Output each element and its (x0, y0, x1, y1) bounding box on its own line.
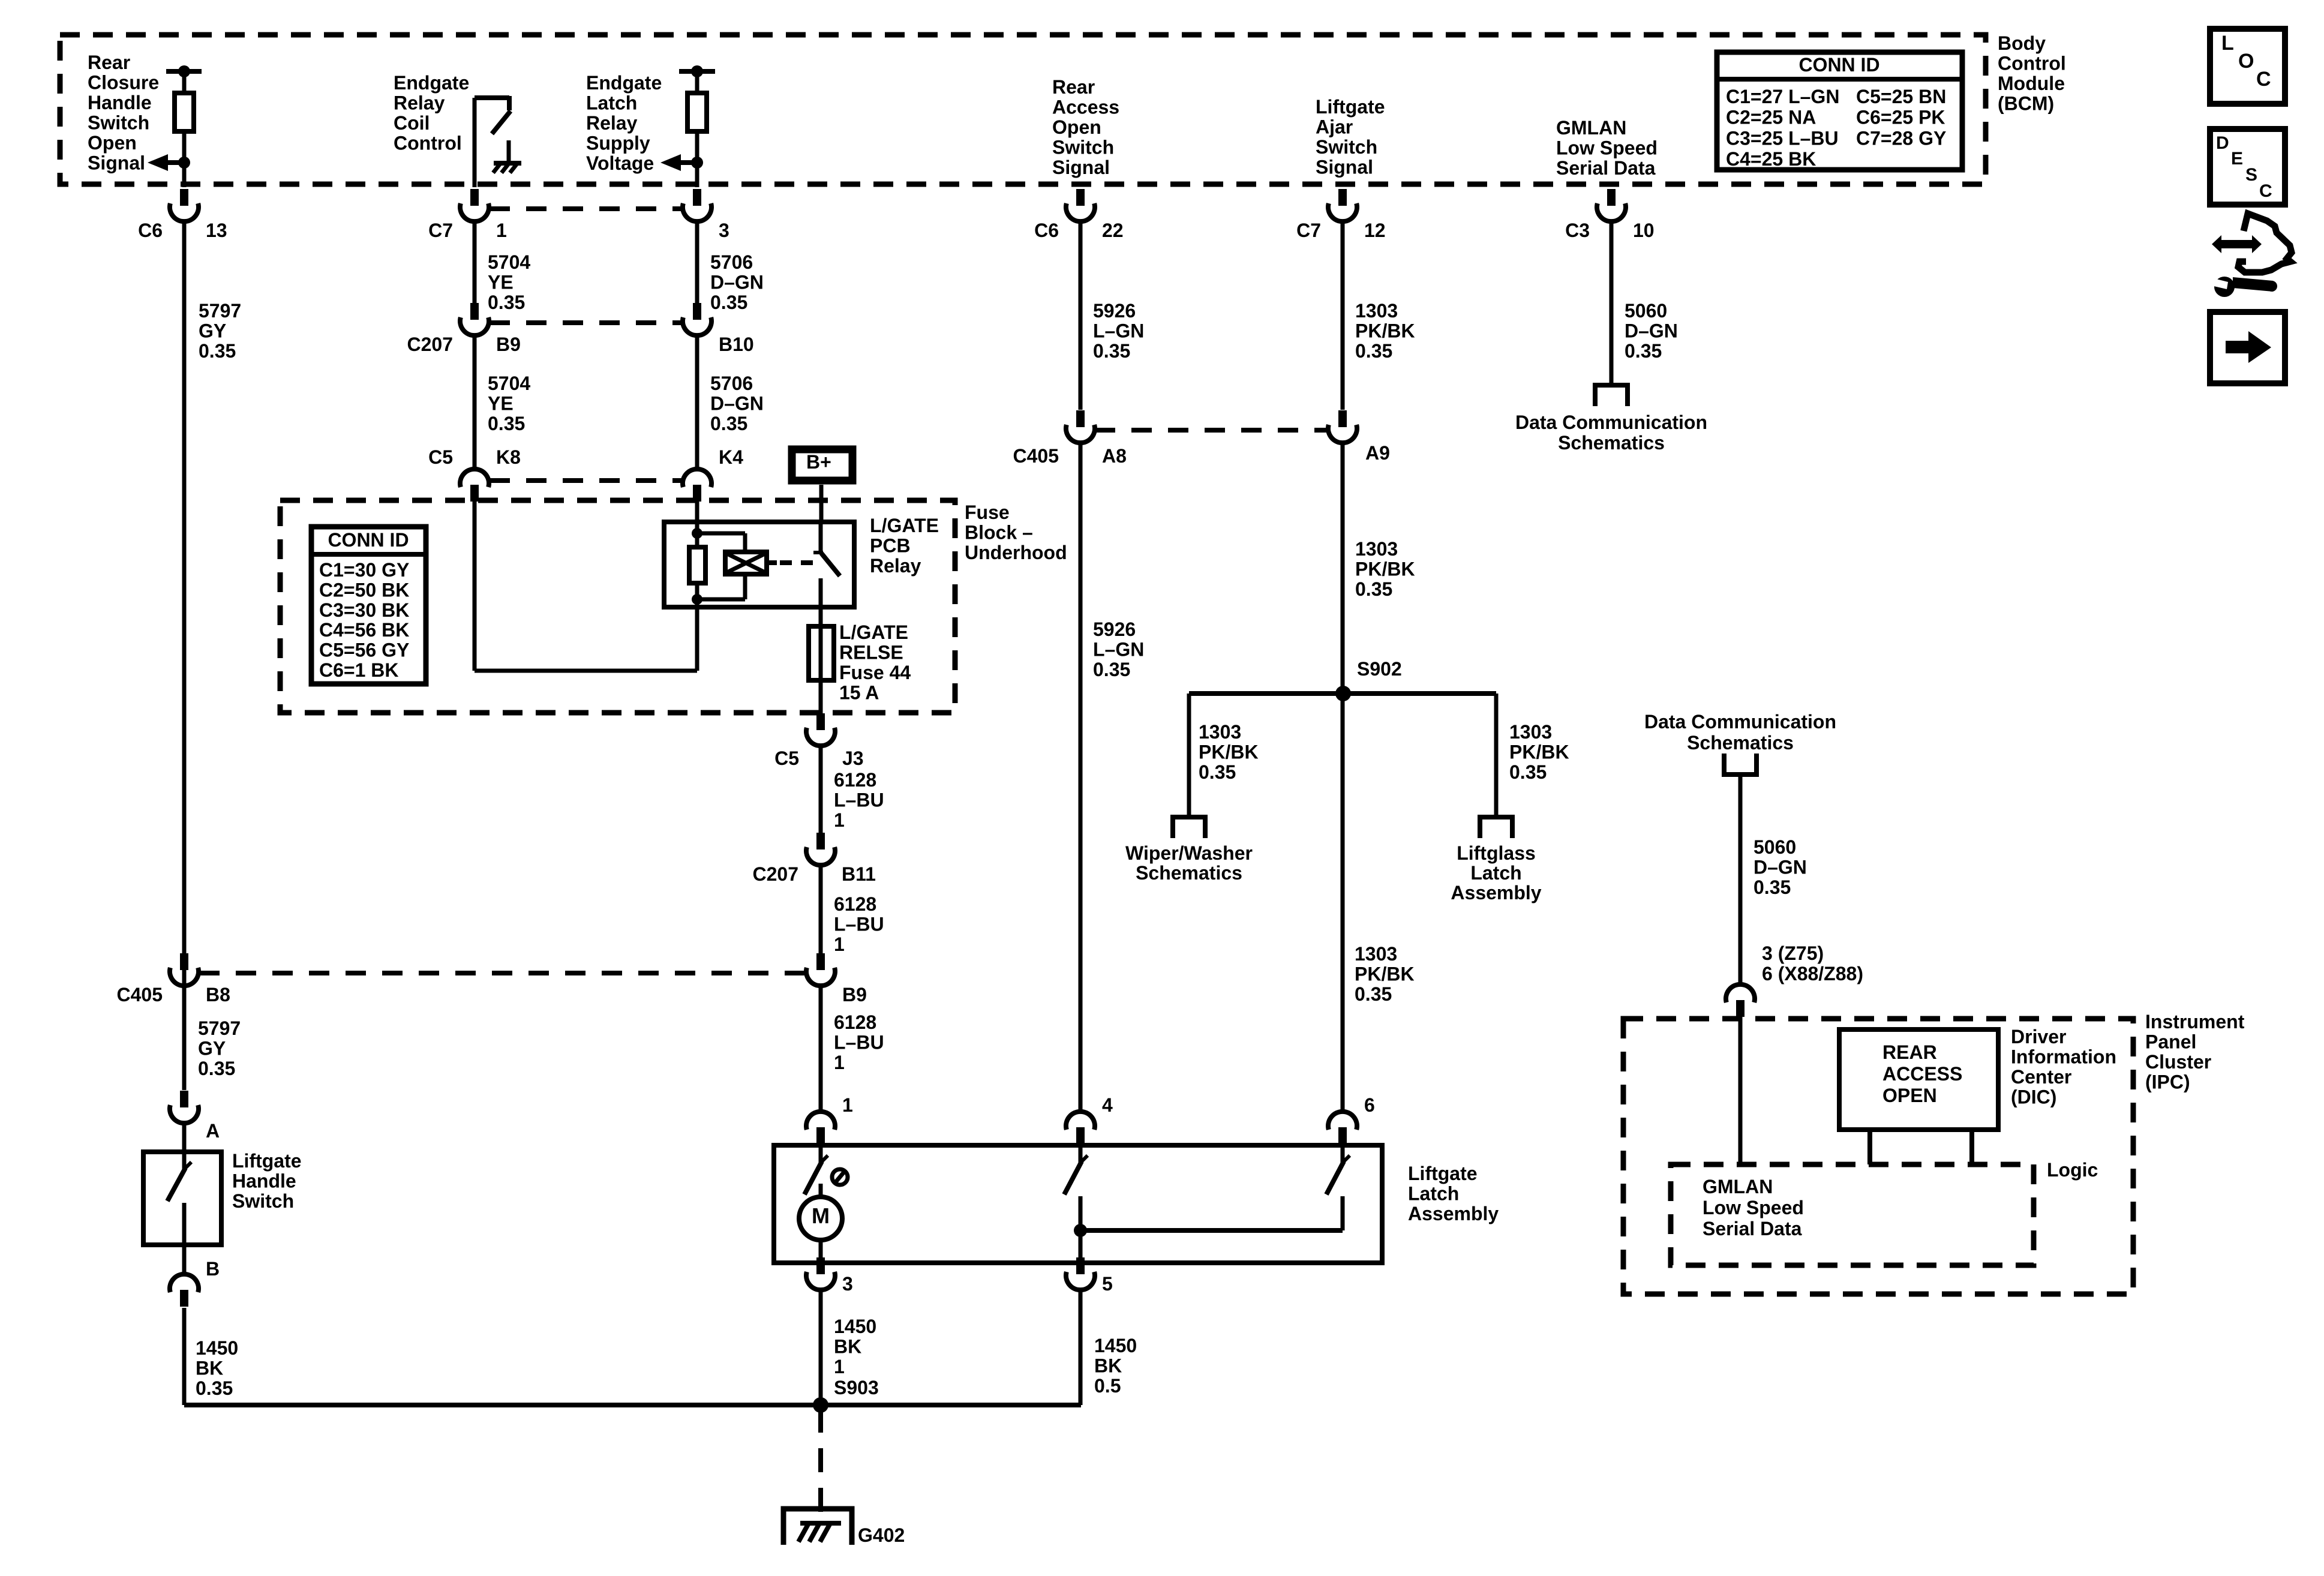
svg-text:Data Communication: Data Communication (1515, 412, 1707, 433)
svg-text:Relay: Relay (870, 555, 921, 577)
svg-text:OPEN: OPEN (1882, 1085, 1937, 1106)
svg-text:1303: 1303 (1355, 943, 1397, 965)
svg-text:C2=50 BK: C2=50 BK (319, 579, 409, 601)
svg-text:YE: YE (488, 272, 514, 293)
svg-text:0.35: 0.35 (710, 292, 747, 313)
svg-text:Logic: Logic (2047, 1159, 2098, 1181)
svg-text:1450: 1450 (1094, 1335, 1137, 1356)
svg-text:1: 1 (834, 1052, 845, 1073)
svg-text:C405: C405 (117, 984, 163, 1005)
svg-text:RELSE: RELSE (839, 642, 903, 664)
svg-text:B+: B+ (806, 451, 831, 473)
svg-text:6: 6 (1364, 1094, 1375, 1116)
svg-text:C5=25 BN: C5=25 BN (1856, 86, 1946, 107)
svg-text:Assembly: Assembly (1451, 882, 1541, 903)
svg-text:0.35: 0.35 (1093, 659, 1130, 680)
svg-text:1: 1 (834, 1356, 845, 1377)
svg-text:Liftglass: Liftglass (1457, 842, 1536, 864)
svg-text:12: 12 (1364, 220, 1386, 241)
svg-text:6128: 6128 (834, 1011, 876, 1033)
svg-text:C5: C5 (774, 748, 799, 769)
svg-text:C7: C7 (428, 220, 453, 241)
svg-text:G402: G402 (858, 1524, 905, 1546)
svg-text:0.35: 0.35 (488, 413, 525, 434)
svg-text:0.35: 0.35 (1355, 983, 1392, 1005)
svg-text:GMLAN: GMLAN (1556, 117, 1626, 139)
svg-text:1303: 1303 (1509, 721, 1552, 743)
svg-text:Module: Module (1998, 73, 2065, 94)
svg-text:PCB: PCB (870, 535, 911, 557)
svg-text:D: D (2216, 133, 2229, 153)
svg-text:Relay: Relay (586, 112, 638, 134)
svg-text:Relay: Relay (394, 92, 445, 114)
svg-text:S903: S903 (834, 1377, 879, 1398)
svg-text:PK/BK: PK/BK (1355, 559, 1415, 580)
svg-text:0.35: 0.35 (488, 292, 525, 313)
svg-text:B10: B10 (719, 334, 754, 355)
svg-text:L–GN: L–GN (1093, 639, 1144, 661)
svg-text:5706: 5706 (710, 251, 753, 273)
svg-text:CONN ID: CONN ID (1798, 54, 1879, 76)
svg-text:Closure: Closure (88, 72, 159, 94)
svg-text:L–BU: L–BU (834, 914, 884, 935)
svg-text:0.5: 0.5 (1094, 1375, 1121, 1397)
svg-text:4: 4 (1102, 1094, 1113, 1116)
svg-text:S902: S902 (1357, 658, 1402, 680)
svg-text:1303: 1303 (1355, 300, 1398, 322)
svg-text:YE: YE (488, 393, 514, 415)
svg-text:Driver: Driver (2011, 1026, 2067, 1047)
svg-text:(BCM): (BCM) (1998, 93, 2054, 115)
svg-text:Liftgate: Liftgate (1408, 1163, 1478, 1184)
svg-text:(DIC): (DIC) (2011, 1086, 2056, 1108)
svg-text:C: C (2259, 181, 2272, 201)
svg-text:0.35: 0.35 (710, 413, 747, 434)
svg-text:Endgate: Endgate (394, 72, 469, 94)
svg-text:C5=56 GY: C5=56 GY (319, 640, 409, 661)
svg-text:0.35: 0.35 (1093, 340, 1130, 362)
svg-text:Assembly: Assembly (1408, 1203, 1499, 1224)
svg-text:0.35: 0.35 (1509, 761, 1547, 783)
svg-text:Latch: Latch (1408, 1183, 1459, 1205)
svg-text:BK: BK (1094, 1355, 1122, 1377)
svg-text:C5: C5 (428, 446, 453, 468)
svg-text:Latch: Latch (1470, 862, 1521, 884)
svg-text:1450: 1450 (834, 1316, 876, 1337)
svg-text:1303: 1303 (1355, 538, 1398, 560)
svg-text:S: S (2245, 165, 2257, 185)
svg-text:B8: B8 (206, 984, 230, 1005)
svg-text:10: 10 (1633, 220, 1655, 241)
svg-text:Supply: Supply (586, 133, 650, 154)
svg-text:6128: 6128 (834, 893, 876, 915)
svg-text:C6=25 PK: C6=25 PK (1856, 107, 1945, 128)
svg-text:K4: K4 (719, 446, 743, 468)
svg-text:Signal: Signal (88, 152, 145, 174)
svg-text:A8: A8 (1102, 445, 1127, 467)
svg-text:5060: 5060 (1753, 836, 1796, 858)
svg-text:A9: A9 (1365, 442, 1390, 464)
svg-text:15 A: 15 A (839, 682, 879, 704)
svg-text:C3=25 L–BU: C3=25 L–BU (1726, 127, 1839, 149)
svg-text:1: 1 (834, 933, 845, 955)
svg-text:K8: K8 (496, 446, 521, 468)
svg-text:Control: Control (394, 133, 462, 154)
svg-text:Switch: Switch (88, 112, 149, 134)
svg-text:Low Speed: Low Speed (1556, 137, 1658, 159)
svg-text:5704: 5704 (488, 373, 530, 394)
svg-text:D–GN: D–GN (710, 393, 764, 415)
svg-text:1: 1 (496, 220, 507, 241)
svg-text:PK/BK: PK/BK (1355, 320, 1415, 342)
svg-text:C3=30 BK: C3=30 BK (319, 599, 409, 621)
svg-text:BK: BK (196, 1358, 223, 1379)
svg-text:0.35: 0.35 (1355, 578, 1392, 600)
svg-text:M: M (812, 1203, 830, 1228)
svg-text:6128: 6128 (834, 769, 876, 791)
svg-text:0.35: 0.35 (198, 1058, 235, 1079)
svg-text:B: B (206, 1258, 220, 1280)
svg-text:3: 3 (842, 1273, 853, 1295)
svg-text:Signal: Signal (1316, 157, 1373, 178)
svg-text:5060: 5060 (1625, 300, 1667, 322)
svg-text:C1=27 L–GN: C1=27 L–GN (1726, 86, 1839, 107)
svg-text:A: A (206, 1120, 220, 1142)
svg-text:Schematics: Schematics (1136, 862, 1242, 884)
svg-text:Serial Data: Serial Data (1556, 157, 1656, 179)
svg-text:REAR: REAR (1882, 1041, 1937, 1063)
svg-text:Switch: Switch (1052, 137, 1114, 158)
svg-text:D–GN: D–GN (1753, 857, 1807, 878)
svg-text:Access: Access (1052, 97, 1119, 118)
svg-text:Coil: Coil (394, 112, 430, 134)
svg-text:D–GN: D–GN (1625, 320, 1678, 342)
svg-text:0.35: 0.35 (1355, 340, 1392, 362)
svg-text:Schematics: Schematics (1558, 432, 1665, 454)
svg-text:0.35: 0.35 (1625, 340, 1662, 362)
svg-text:GY: GY (198, 1038, 226, 1059)
svg-text:Center: Center (2011, 1066, 2071, 1088)
svg-text:PK/BK: PK/BK (1199, 742, 1259, 763)
svg-text:Fuse: Fuse (965, 502, 1010, 523)
svg-text:GY: GY (199, 320, 226, 342)
svg-text:D–GN: D–GN (710, 272, 764, 293)
svg-text:Switch: Switch (232, 1190, 294, 1212)
svg-text:Open: Open (1052, 116, 1101, 138)
svg-text:C7=28 GY: C7=28 GY (1856, 127, 1946, 149)
svg-text:13: 13 (206, 220, 227, 241)
svg-text:L: L (2221, 32, 2234, 55)
svg-text:(IPC): (IPC) (2145, 1071, 2190, 1093)
svg-text:Rear: Rear (1052, 76, 1095, 98)
svg-text:C2=25 NA: C2=25 NA (1726, 107, 1816, 128)
svg-text:Endgate: Endgate (586, 72, 662, 94)
svg-text:3 (Z75): 3 (Z75) (1762, 942, 1824, 964)
svg-text:3: 3 (719, 220, 729, 241)
svg-text:J3: J3 (842, 748, 864, 769)
svg-text:5926: 5926 (1093, 619, 1136, 640)
svg-text:Latch: Latch (586, 92, 637, 114)
svg-text:0.35: 0.35 (1753, 876, 1791, 898)
svg-text:Voltage: Voltage (586, 152, 654, 174)
svg-text:ACCESS: ACCESS (1882, 1063, 1962, 1085)
svg-text:Signal: Signal (1052, 157, 1110, 178)
svg-text:6 (X88/Z88): 6 (X88/Z88) (1762, 963, 1863, 984)
svg-text:0.35: 0.35 (196, 1377, 233, 1399)
svg-text:Block –: Block – (965, 522, 1033, 544)
svg-text:Schematics: Schematics (1687, 732, 1794, 754)
svg-text:1303: 1303 (1199, 721, 1241, 743)
svg-text:0.35: 0.35 (1199, 761, 1236, 783)
svg-text:22: 22 (1102, 220, 1124, 241)
svg-text:Liftgate: Liftgate (232, 1150, 302, 1172)
svg-text:C6: C6 (1034, 220, 1059, 241)
svg-text:1: 1 (842, 1094, 853, 1116)
svg-text:Ajar: Ajar (1316, 116, 1353, 138)
svg-text:Fuse 44: Fuse 44 (839, 662, 911, 683)
svg-text:Handle: Handle (88, 92, 152, 113)
svg-text:Open: Open (88, 132, 137, 154)
svg-text:Rear: Rear (88, 52, 130, 73)
svg-text:Switch: Switch (1316, 136, 1377, 158)
svg-text:Body: Body (1998, 32, 2046, 54)
svg-text:C207: C207 (407, 334, 454, 355)
svg-text:Data Communication: Data Communication (1644, 711, 1836, 733)
svg-text:PK/BK: PK/BK (1509, 742, 1569, 763)
svg-text:1: 1 (834, 809, 845, 831)
svg-text:5: 5 (1102, 1273, 1113, 1295)
svg-text:E: E (2231, 149, 2243, 169)
svg-text:1450: 1450 (196, 1337, 238, 1359)
svg-text:5797: 5797 (198, 1017, 241, 1039)
svg-text:B11: B11 (842, 863, 876, 885)
svg-text:5926: 5926 (1093, 300, 1136, 322)
svg-text:L/GATE: L/GATE (870, 515, 939, 536)
svg-text:C207: C207 (753, 863, 799, 885)
svg-text:Panel: Panel (2145, 1031, 2196, 1053)
svg-text:C405: C405 (1013, 445, 1059, 467)
svg-text:Instrument: Instrument (2145, 1011, 2245, 1032)
svg-text:Wiper/Washer: Wiper/Washer (1125, 842, 1253, 864)
svg-text:B9: B9 (842, 984, 867, 1005)
svg-text:Control: Control (1998, 53, 2066, 74)
svg-text:L–BU: L–BU (834, 1032, 884, 1053)
svg-text:Information: Information (2011, 1046, 2116, 1068)
svg-text:O: O (2238, 50, 2254, 73)
svg-text:BK: BK (834, 1336, 861, 1358)
svg-text:5704: 5704 (488, 251, 530, 273)
svg-text:C1=30 GY: C1=30 GY (319, 559, 409, 581)
svg-text:PK/BK: PK/BK (1355, 963, 1415, 985)
svg-text:B9: B9 (496, 334, 521, 355)
svg-text:Handle: Handle (232, 1170, 296, 1192)
svg-text:L/GATE: L/GATE (839, 622, 908, 643)
svg-text:C4=25 BK: C4=25 BK (1726, 148, 1816, 170)
svg-text:C3: C3 (1565, 220, 1590, 241)
svg-text:C6: C6 (138, 220, 163, 241)
svg-text:CONN ID: CONN ID (328, 529, 409, 551)
svg-text:L–BU: L–BU (834, 789, 884, 811)
svg-text:GMLAN: GMLAN (1703, 1176, 1773, 1197)
svg-text:Underhood: Underhood (965, 542, 1067, 563)
svg-text:Low Speed: Low Speed (1703, 1197, 1804, 1218)
svg-text:5706: 5706 (710, 373, 753, 394)
svg-text:Serial Data: Serial Data (1703, 1218, 1802, 1239)
svg-text:0.35: 0.35 (199, 340, 236, 362)
svg-text:L–GN: L–GN (1093, 320, 1144, 342)
svg-text:C4=56 BK: C4=56 BK (319, 619, 409, 641)
svg-text:Cluster: Cluster (2145, 1051, 2211, 1073)
svg-text:C6=1 BK: C6=1 BK (319, 659, 399, 681)
svg-text:C: C (2256, 68, 2271, 91)
svg-text:Liftgate: Liftgate (1316, 96, 1385, 118)
svg-text:5797: 5797 (199, 300, 241, 322)
svg-text:C7: C7 (1296, 220, 1321, 241)
